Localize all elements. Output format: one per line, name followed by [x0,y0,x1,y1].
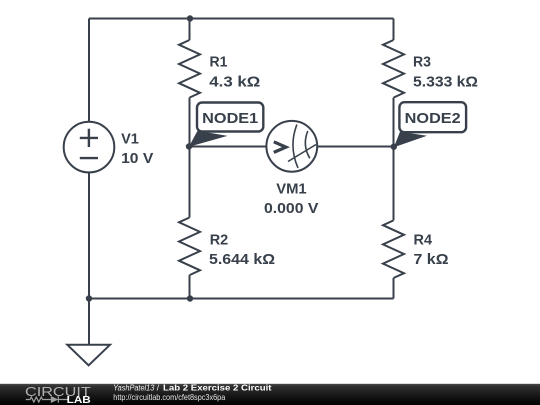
svg-text:NODE2: NODE2 [405,110,461,127]
svg-text:VM1: VM1 [276,181,307,198]
svg-text:NODE1: NODE1 [202,110,258,127]
svg-text:10 V: 10 V [121,150,153,167]
svg-text:http://circuitlab.com/cfet8spc: http://circuitlab.com/cfet8spc3x6pa [113,392,225,402]
svg-text:0.000 V: 0.000 V [264,200,318,217]
svg-text:R4: R4 [414,232,433,249]
svg-text:YashPatel13: YashPatel13 [113,383,154,393]
svg-text:LAB: LAB [67,395,91,405]
svg-text:5.333 kΩ: 5.333 kΩ [413,74,478,91]
svg-text:Lab 2 Exercise 2 Circuit: Lab 2 Exercise 2 Circuit [163,383,272,393]
svg-text:R3: R3 [413,53,431,70]
svg-text:R2: R2 [210,232,229,249]
svg-text:4.3 kΩ: 4.3 kΩ [209,74,260,91]
svg-text:V1: V1 [121,130,139,147]
svg-text:5.644 kΩ: 5.644 kΩ [209,251,275,268]
svg-text:R1: R1 [210,53,228,70]
svg-text:7 kΩ: 7 kΩ [414,251,449,268]
